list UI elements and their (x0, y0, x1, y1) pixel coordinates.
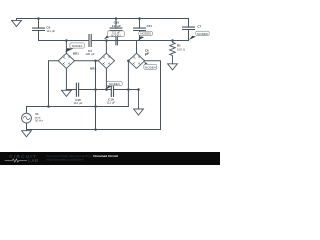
capacitor C11 (134, 17, 146, 40)
svg-text:111 µF: 111 µF (46, 29, 55, 33)
svg-text:BR1: BR1 (73, 52, 79, 56)
wire BR1 bottom lead (65, 68, 67, 89)
ground GND V1 (22, 130, 32, 137)
label C16 (106, 97, 115, 104)
wire BR1 right to BR2 (75, 60, 99, 62)
svg-text:C7: C7 (197, 25, 201, 29)
watermark bar (0, 152, 220, 165)
label C15 (74, 98, 83, 105)
svg-text:111 µF: 111 µF (74, 101, 83, 105)
wire BR3 right loop (145, 61, 161, 130)
resistor R1 (170, 39, 176, 64)
wire top rail (17, 18, 189, 20)
svg-text:NODE4: NODE4 (145, 65, 156, 69)
svg-text:NODE5: NODE5 (197, 32, 208, 36)
label C4 (85, 49, 95, 56)
ground GND mid (134, 90, 144, 116)
bridge rectifier BR3 (128, 53, 144, 68)
ground GND top-left (12, 19, 22, 27)
flag NODE5 (189, 31, 209, 40)
voltage source V1 (22, 107, 32, 130)
capacitor C4 (89, 35, 91, 47)
wire bottom rail (27, 129, 161, 131)
capacitor C7 (183, 19, 195, 41)
wire BR1 left down (49, 61, 59, 107)
svg-text:111 µF: 111 µF (112, 24, 121, 28)
ground GND R1 (168, 64, 178, 70)
capacitor C10 (110, 17, 122, 45)
watermark text (47, 154, 118, 162)
svg-text:NODE3: NODE3 (109, 82, 120, 86)
label V1 (35, 112, 43, 122)
flag NODE4 (144, 61, 157, 69)
wire BR1 top lead (65, 41, 67, 54)
bridge rectifier BR1 (58, 53, 74, 68)
svg-text:111 µF: 111 µF (106, 101, 115, 105)
label C10 (112, 21, 121, 28)
node BR3 left junction (127, 60, 130, 63)
svg-text:50 Hz: 50 Hz (35, 119, 43, 123)
svg-text:100 Ω: 100 Ω (177, 48, 186, 52)
svg-text:100 µF: 100 µF (85, 52, 95, 56)
wire lower mid rail (66, 89, 138, 91)
svg-text:BR2: BR2 (90, 66, 96, 70)
flag NODE3 (106, 82, 122, 90)
wire BR2 top lead (105, 41, 107, 54)
wire BR3 left down (127, 61, 129, 107)
svg-text:NODE1: NODE1 (72, 44, 83, 48)
wire BR3 top lead (136, 41, 138, 54)
svg-text:LAB: LAB (28, 158, 38, 163)
node mid-ground junction (137, 88, 140, 91)
capacitor C9 (33, 19, 45, 41)
wire lower rail y107 (27, 106, 129, 108)
logo CircuitLab (9, 154, 38, 163)
wire vertical x95 (95, 61, 97, 130)
wire mid rail (39, 40, 189, 42)
label R1 (177, 44, 186, 52)
wire BR2 bottom lead (105, 68, 107, 89)
flag NODE6 (138, 32, 152, 41)
svg-text:µF: µF (145, 52, 149, 56)
flag NODE1 (65, 43, 84, 53)
label C9 (46, 26, 55, 33)
svg-text:NODE6: NODE6 (140, 32, 151, 36)
label C6 (145, 49, 149, 57)
node junction x95 (94, 60, 97, 63)
svg-text:http://circuitlab.com/c6q0er5: http://circuitlab.com/c6q0er5 (47, 158, 85, 162)
svg-text:NODE2: NODE2 (111, 33, 121, 37)
svg-text:C11: C11 (147, 24, 153, 28)
flag NODE2 (104, 31, 124, 40)
node junction C9 top (37, 17, 40, 20)
node NODE1 junction (65, 39, 68, 42)
ground GND BR1 (62, 90, 72, 97)
capacitor C16 (111, 85, 113, 97)
capacitor C15 (76, 83, 78, 96)
bridge rectifier BR2 (98, 53, 114, 68)
